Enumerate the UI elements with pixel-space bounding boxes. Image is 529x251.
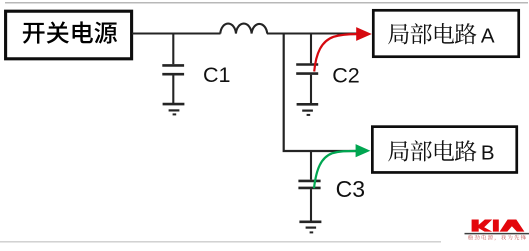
block: local circuit A 局部电路 A [373,10,518,56]
block: local circuit B 局部电路 B [372,127,516,173]
svg-text:C1: C1 [203,63,230,87]
capacitor C2 [296,33,318,104]
inductor L1 [220,24,267,34]
svg-text:C2: C2 [332,64,359,88]
wire: PSU output to inductor [132,32,221,34]
KIA logo [465,220,529,241]
red arrow: noise path to local circuit A [314,27,372,71]
svg-text:C3: C3 [336,176,365,202]
ground (C3) [299,222,321,233]
wire: inductor to local circuit A [267,32,359,34]
decorative top rule [5,2,528,4]
ground (C1) [163,104,185,114]
wire: junction down to local circuit B branch [284,33,358,152]
capacitor C3 [298,151,320,221]
svg-text:B: B [481,142,495,165]
green arrow: clean path to local circuit B [314,144,370,188]
ground (C2) [297,104,319,115]
decorative bottom rule [0,241,441,243]
block: switching power supply 开关电源 [6,11,132,59]
capacitor C1 [162,33,184,104]
svg-text:A: A [481,24,495,47]
